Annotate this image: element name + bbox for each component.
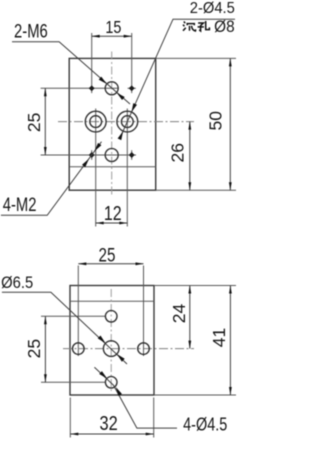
svg-text:32: 32 <box>99 411 117 434</box>
dimension 15 <box>92 35 132 37</box>
extension col x=91.7 upper (15-dim / M2) <box>91 33 93 93</box>
cross arm vertical x=131.7 lower <box>131 150 133 160</box>
leader 2-Ø4.5 <box>121 19 235 136</box>
cross arm vertical x=91.7 lower <box>91 150 93 160</box>
svg-text:50: 50 <box>206 111 226 131</box>
extension 32-dim left <box>69 398 71 438</box>
extension row y=316.3 (25-left) <box>41 315 106 317</box>
dimension 25 left (P2) <box>44 316 46 382</box>
extension col x=78.3 (25-dim / left hole) <box>77 266 79 357</box>
extension: bottom edge to 26/50-dim <box>156 189 236 191</box>
dimension 32 <box>70 433 153 435</box>
dimension 12 <box>96 222 128 224</box>
plate P2 outline <box>70 286 154 396</box>
svg-text:4-Ø4.5: 4-Ø4.5 <box>183 414 227 435</box>
hole bottom Ø4.5 <box>105 377 117 389</box>
counterbore left inner <box>90 116 102 128</box>
dimension 26 <box>189 122 191 191</box>
M2 hole marks <box>89 85 95 91</box>
svg-text:2-Ø4.5: 2-Ø4.5 <box>190 0 235 17</box>
svg-text:26: 26 <box>168 143 188 162</box>
extension col x=95.7 (12-dim / counterbore) <box>95 109 97 227</box>
leader 2-M6 <box>12 42 130 104</box>
leader Ø6.5 <box>2 292 127 364</box>
dimension 24 <box>189 286 191 349</box>
svg-text:25: 25 <box>99 244 116 266</box>
hole right Ø4.5 <box>138 343 150 355</box>
middle row centerline y=348.6 <box>63 348 194 350</box>
middle row centerline y=121.6 <box>58 121 194 123</box>
svg-text:24: 24 <box>169 304 189 324</box>
extension col x=127.3 (12-dim / counterbore) <box>126 109 128 227</box>
svg-text:25: 25 <box>24 113 44 132</box>
extension: top edge to 24/41-dim <box>154 285 236 287</box>
hole left Ø4.5 <box>73 343 85 355</box>
svg-text:Ø8: Ø8 <box>214 19 235 37</box>
hole M6 top <box>105 82 118 95</box>
vertical centerline x=111.2 <box>110 289 112 391</box>
svg-text:25: 25 <box>24 339 44 358</box>
leader 4-M2 <box>1 142 102 216</box>
svg-text:Ø6.5: Ø6.5 <box>1 274 33 292</box>
hole center Ø6.5 <box>103 341 119 357</box>
dimension 50 <box>229 58 231 190</box>
plate P1 interior step line <box>69 166 156 168</box>
svg-text:41: 41 <box>209 328 229 347</box>
svg-text:15: 15 <box>105 17 121 37</box>
counterbore right outer <box>117 111 138 132</box>
plate P2 interior step line <box>70 300 154 302</box>
hanzi 孔 <box>198 21 210 31</box>
dimension 25 left <box>44 88 46 155</box>
extension col x=131.7 upper (15-dim / M2) <box>131 33 133 93</box>
dimension 25 top (P2) <box>78 263 143 265</box>
extension row y=382.3 (25-left) <box>41 381 106 383</box>
counterbore left outer <box>85 111 106 132</box>
hole M6 bottom <box>105 149 118 162</box>
extension 32-dim right <box>153 398 155 438</box>
extension: top edge to 50-dim <box>156 57 236 59</box>
dimension 41 <box>229 286 231 396</box>
counterbore right inner <box>121 116 133 128</box>
hole top Ø4.5 <box>105 311 117 323</box>
leader 4-Ø4.5 <box>94 367 177 428</box>
row centerline y=155 <box>41 154 136 156</box>
hanzi 沉 <box>183 22 196 32</box>
extension: bottom edge to 41-dim <box>154 394 236 396</box>
svg-text:4-M2: 4-M2 <box>3 194 37 215</box>
cross arm right top <box>128 87 136 89</box>
svg-text:2-M6: 2-M6 <box>14 21 48 42</box>
row centerline y=88.3 <box>41 87 119 89</box>
extension col x=143.5 (25-dim / right hole) <box>143 266 145 357</box>
svg-text:12: 12 <box>104 203 122 225</box>
plate P1 outline <box>69 58 156 190</box>
vertical centerline x=111.7 <box>111 52 113 197</box>
